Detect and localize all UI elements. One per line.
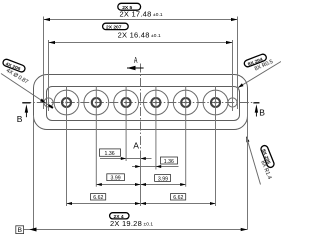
svg-text:B: B	[259, 108, 265, 118]
balloon 8X 204	[243, 53, 267, 68]
section marker B right	[253, 103, 265, 118]
datum box B	[16, 226, 24, 234]
hole 1	[54, 86, 79, 206]
section marker B left	[17, 103, 31, 124]
svg-text:3.99: 3.99	[111, 176, 121, 182]
balloon 4X 206	[2, 58, 26, 73]
dimension 3.99 left	[96, 174, 140, 186]
dimension 2X 16.48	[49, 30, 233, 111]
svg-text:1.36: 1.36	[105, 151, 115, 157]
hole 5	[173, 86, 198, 186]
label 8X R1.4 leader	[246, 137, 260, 185]
svg-text:2X 5: 2X 5	[122, 5, 132, 11]
dimension 3.99 right	[141, 175, 186, 186]
dimension 1.36 right	[132, 157, 179, 168]
part inner contour	[47, 87, 240, 121]
centerline B-B horizontal	[22, 102, 259, 104]
dimension 6.62 left	[67, 194, 141, 205]
part outer outline	[34, 75, 248, 130]
hole 3	[114, 86, 139, 161]
section marker A top	[127, 56, 144, 71]
section line A-A vertical	[140, 64, 142, 159]
small hole right	[228, 98, 237, 107]
center extension line	[140, 159, 142, 207]
balloon 8X 205	[259, 145, 275, 169]
balloon 2X 5	[118, 3, 141, 11]
svg-text:A: A	[134, 56, 138, 66]
hole 6	[203, 86, 228, 206]
dimension 2X 19.28 overall	[24, 104, 248, 232]
balloon 2X 207	[103, 23, 129, 30]
svg-text:6.62: 6.62	[173, 195, 183, 201]
svg-text:6.62: 6.62	[93, 195, 103, 201]
dimension 1.36 left	[100, 149, 152, 160]
svg-text:B: B	[18, 227, 22, 234]
svg-text:3.99: 3.99	[158, 177, 168, 183]
label 8X R0.5 leader	[238, 62, 281, 88]
hole 4	[144, 86, 169, 169]
dimension 6.62 right	[141, 194, 216, 205]
svg-text:2X 207: 2X 207	[106, 25, 122, 31]
svg-text:2X 4: 2X 4	[114, 214, 124, 220]
hole 2	[84, 86, 109, 186]
svg-text:A: A	[133, 140, 139, 150]
dimension 2X 17.48	[44, 10, 238, 109]
small hole left	[44, 98, 53, 107]
svg-text:1.36: 1.36	[164, 159, 174, 165]
svg-text:B: B	[17, 114, 23, 124]
label 4X Ø0.87 leader	[1, 74, 53, 109]
balloon 2X 4	[110, 213, 129, 220]
